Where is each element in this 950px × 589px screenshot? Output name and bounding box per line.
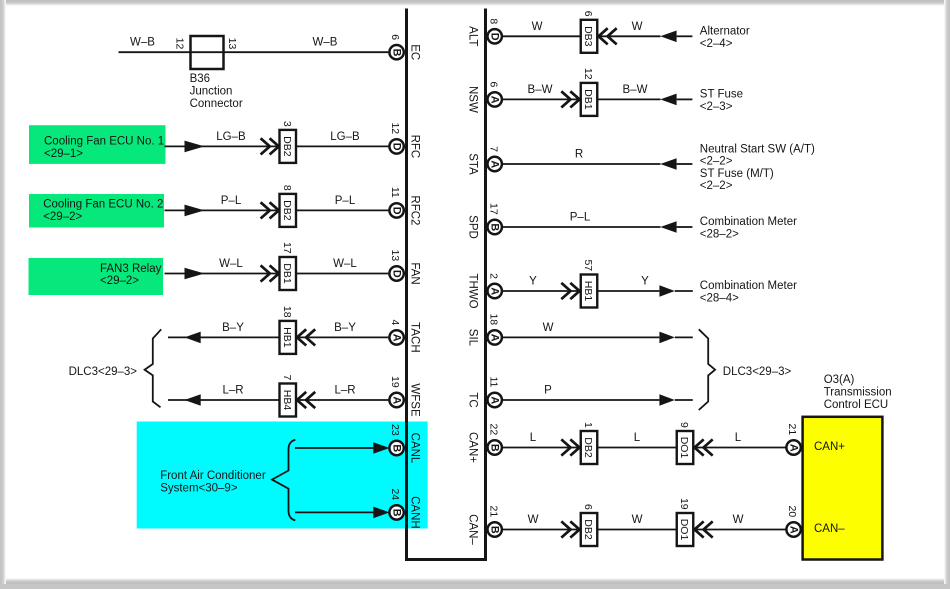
wire P&#8211;L to RFC2: [165, 209, 389, 211]
wire to CANH: [295, 511, 374, 513]
svg-text:12: 12: [174, 38, 186, 50]
svg-text:12: 12: [389, 122, 401, 134]
svg-text:ALT: ALT: [466, 26, 478, 46]
svg-text:L: L: [634, 432, 641, 444]
junction connector B36: [174, 36, 239, 69]
svg-text:W: W: [733, 514, 744, 526]
svg-text:A: A: [391, 396, 403, 404]
svg-text:4: 4: [389, 319, 401, 325]
connector HB1 pin 57 (THWO): [581, 259, 598, 307]
svg-text:18: 18: [487, 313, 499, 325]
connector DB2 pin 8 (RFC2): [280, 185, 297, 227]
svg-text:20: 20: [786, 506, 798, 518]
svg-text:DB2: DB2: [582, 437, 594, 458]
svg-text:LG–B: LG–B: [330, 131, 360, 143]
svg-text:23: 23: [389, 424, 401, 436]
svg-text:Cooling Fan ECU No. 2: Cooling Fan ECU No. 2: [43, 198, 163, 210]
svg-text:Combination Meter: Combination Meter: [700, 280, 797, 292]
splice chevrons DB2 RFC: [261, 138, 279, 154]
splice chevrons DB2 CAN-: [561, 521, 579, 537]
svg-text:W–B: W–B: [130, 37, 155, 49]
connector DB2 pin 6 (CAN-): [581, 504, 598, 546]
svg-text:7: 7: [281, 374, 293, 380]
Cooling Fan ECU No.1 callout box: [29, 125, 166, 164]
svg-text:CAN–: CAN–: [466, 514, 478, 545]
svg-text:21: 21: [487, 506, 499, 518]
svg-text:L–R: L–R: [222, 385, 243, 397]
svg-text:A: A: [391, 334, 403, 342]
svg-text:P–L: P–L: [221, 195, 242, 207]
arrow to Combination Meter 28-4: [659, 285, 674, 297]
wire stub into DLC3 bottom: [675, 399, 693, 401]
FAN3 Relay callout box: [29, 258, 164, 295]
arrow into CANL: [373, 442, 389, 454]
destination ST Fuse: [700, 89, 743, 113]
svg-text:ST Fuse (M/T): ST Fuse (M/T): [700, 168, 774, 180]
pin 17 B (SPD): [487, 203, 502, 234]
svg-text:Neutral Start SW (A/T): Neutral Start SW (A/T): [700, 143, 815, 155]
FAN3 Relay label: [100, 263, 162, 287]
wire B-W from NSW: [503, 98, 661, 100]
Front Air Conditioner System callout box: [137, 422, 428, 529]
pin 11 D (RFC2): [389, 187, 404, 218]
wire W&#8211;L to FAN: [165, 273, 389, 275]
pin 6 A (NSW): [487, 81, 502, 106]
svg-text:DB1: DB1: [582, 89, 594, 110]
svg-text:DO1: DO1: [678, 437, 690, 459]
svg-text:B–Y: B–Y: [222, 322, 244, 334]
splice chevrons DO1 CAN+: [695, 439, 713, 455]
svg-text:TC: TC: [466, 392, 478, 407]
svg-text:R: R: [575, 149, 583, 161]
splice chevrons DB1 FAN: [261, 265, 279, 281]
svg-text:18: 18: [281, 306, 293, 318]
svg-text:SIL: SIL: [466, 329, 478, 347]
pin 4 A (TACH): [389, 319, 404, 344]
svg-text:DO1: DO1: [678, 519, 690, 541]
svg-text:22: 22: [487, 424, 499, 436]
wire W from ALT: [503, 35, 661, 37]
connector DB2 pin 3 (RFC): [280, 121, 297, 163]
svg-text:W–B: W–B: [313, 37, 338, 49]
pin 12 D (RFC): [389, 122, 404, 153]
pin 6 B (EC): [389, 34, 404, 59]
wire L&#8211;R from WFSE: [168, 399, 388, 401]
svg-text:8: 8: [487, 18, 499, 24]
B36 Junction Connector label: [190, 73, 243, 110]
svg-text:<29–1>: <29–1>: [44, 148, 83, 160]
destination Combination Meter 28-4: [700, 280, 797, 304]
wire stub to Combination Meter 28-4: [675, 290, 693, 292]
destination Combination Meter 28-2: [700, 216, 797, 240]
svg-text:Cooling Fan ECU No. 1: Cooling Fan ECU No. 1: [44, 135, 164, 147]
svg-text:7: 7: [487, 146, 499, 152]
svg-text:P–L: P–L: [570, 212, 591, 224]
svg-text:WFSE: WFSE: [408, 383, 420, 417]
svg-text:System<30–9>: System<30–9>: [160, 482, 238, 494]
svg-text:FAN3 Relay: FAN3 Relay: [100, 263, 162, 275]
svg-text:STA: STA: [466, 153, 478, 175]
svg-text:24: 24: [389, 488, 401, 500]
svg-text:<2–2>: <2–2>: [700, 156, 733, 168]
wire R from STA: [503, 163, 661, 165]
svg-text:DB2: DB2: [281, 200, 293, 221]
svg-text:Junction: Junction: [190, 86, 233, 98]
svg-text:P–L: P–L: [335, 195, 356, 207]
svg-text:11: 11: [487, 376, 499, 387]
svg-text:1: 1: [582, 422, 594, 428]
wire B&#8211;Y from TACH: [168, 336, 388, 338]
svg-text:Connector: Connector: [190, 98, 243, 110]
svg-text:D: D: [391, 207, 403, 215]
svg-text:FAN: FAN: [408, 262, 420, 284]
svg-text:13: 13: [389, 250, 401, 262]
svg-text:B–Y: B–Y: [334, 322, 356, 334]
svg-text:Y: Y: [641, 276, 649, 288]
wire stub to ST Fuse: [677, 98, 693, 100]
svg-text:L: L: [530, 432, 537, 444]
svg-text:B: B: [489, 223, 501, 231]
svg-text:HB1: HB1: [582, 281, 594, 302]
svg-text:9: 9: [678, 422, 690, 428]
O3(A) Transmission Control ECU box: [803, 417, 883, 560]
wire L mid CAN+: [598, 447, 677, 449]
pin 2 A (THWO): [487, 273, 502, 298]
svg-text:A: A: [489, 96, 501, 104]
destination Alternator: [700, 26, 750, 50]
svg-text:A: A: [489, 287, 501, 295]
svg-text:B: B: [391, 444, 403, 452]
wire W from SIL: [503, 336, 660, 338]
wire W mid CAN-: [598, 529, 677, 531]
svg-text:Transmission: Transmission: [824, 387, 892, 399]
destination Neutral Start SW / ST Fuse: [700, 143, 815, 192]
Cooling Fan ECU No.1 label: [44, 135, 164, 159]
svg-text:CANL: CANL: [408, 433, 420, 464]
page frame edges: [0, 0, 950, 6]
svg-text:12: 12: [582, 68, 594, 80]
connector HB1 pin 18 (TACH): [280, 306, 297, 354]
svg-text:B: B: [391, 509, 403, 517]
svg-text:19: 19: [389, 376, 401, 388]
arrow to ST Fuse: [660, 94, 676, 106]
wire stub into DLC3 top: [675, 336, 693, 338]
wire L from CAN+: [503, 447, 581, 449]
engine ECU left bus: [405, 9, 408, 562]
svg-text:21: 21: [786, 424, 798, 436]
pin 21 A (O3A CAN+): [786, 424, 801, 455]
svg-text:57: 57: [582, 259, 594, 271]
engine ECU right bus: [484, 9, 487, 562]
arrow into DLC3 bottom: [659, 394, 674, 406]
svg-text:DLC3<29–3>: DLC3<29–3>: [69, 366, 138, 378]
O3(A) Transmission Control ECU label: [824, 374, 892, 411]
splice chevrons DB3 ALT: [599, 28, 617, 44]
brace DLC3 right: [699, 329, 715, 410]
wire W from CAN-: [503, 529, 581, 531]
pin 23 B (CANL): [389, 424, 404, 455]
svg-text:2: 2: [487, 273, 499, 279]
svg-text:LG–B: LG–B: [216, 131, 246, 143]
svg-text:HB4: HB4: [281, 390, 293, 411]
pin 22 B (CAN+): [487, 424, 502, 455]
svg-text:6: 6: [487, 81, 499, 87]
arrow out of TACH wire: [185, 332, 201, 344]
svg-text:Alternator: Alternator: [700, 26, 750, 38]
splice chevrons HB1 TACH: [297, 329, 315, 345]
svg-text:DB3: DB3: [582, 26, 594, 47]
arrow into RFC2 wire: [185, 205, 205, 217]
connector DB2 pin 1 (CAN+): [581, 422, 598, 464]
svg-text:THWO: THWO: [466, 273, 478, 308]
svg-text:CAN+: CAN+: [466, 432, 478, 463]
connector DO1 pin 9 (CAN+): [677, 422, 694, 464]
svg-text:6: 6: [582, 11, 594, 17]
wire stub to Alternator: [677, 35, 693, 37]
svg-text:D: D: [391, 270, 403, 278]
svg-text:W: W: [532, 21, 543, 33]
svg-text:L–R: L–R: [334, 385, 355, 397]
svg-text:<2–4>: <2–4>: [700, 38, 733, 50]
arrow into DLC3 top: [659, 332, 674, 344]
svg-text:B: B: [489, 444, 501, 452]
svg-text:<29–2>: <29–2>: [100, 275, 139, 287]
svg-text:W–L: W–L: [333, 258, 357, 270]
connector DB1 pin 12 (NSW): [581, 68, 598, 116]
svg-text:CANH: CANH: [408, 496, 420, 529]
svg-text:DLC3<29–3>: DLC3<29–3>: [723, 366, 792, 378]
svg-text:Combination Meter: Combination Meter: [700, 216, 797, 228]
svg-text:D: D: [489, 33, 501, 41]
arrow into CANH: [373, 507, 389, 519]
svg-text:B: B: [489, 526, 501, 534]
svg-text:P: P: [544, 385, 552, 397]
svg-text:NSW: NSW: [466, 86, 478, 113]
svg-text:A: A: [489, 334, 501, 342]
svg-text:SPD: SPD: [466, 215, 478, 239]
svg-text:<2–2>: <2–2>: [700, 180, 733, 192]
svg-text:<28–4>: <28–4>: [700, 293, 739, 305]
wire P from TC: [503, 399, 660, 401]
svg-text:<29–2>: <29–2>: [43, 211, 82, 223]
pin 20 A (O3A CAN-): [786, 506, 801, 537]
svg-text:EC: EC: [408, 44, 420, 60]
pin 11 A (TC): [487, 376, 502, 407]
svg-text:A: A: [489, 396, 501, 404]
connector DB1 pin 17 (FAN): [280, 242, 297, 290]
svg-text:A: A: [788, 444, 800, 452]
svg-text:B–W: B–W: [528, 84, 553, 96]
svg-text:13: 13: [226, 38, 238, 50]
svg-text:CAN+: CAN+: [814, 441, 845, 453]
svg-text:TACH: TACH: [408, 322, 420, 352]
svg-text:17: 17: [487, 203, 499, 215]
svg-text:6: 6: [389, 34, 401, 40]
arrow to Combination Meter: [660, 221, 676, 233]
wire W to O3A CAN-: [693, 529, 787, 531]
wire stub to Neutral Start SW: [677, 163, 693, 165]
engine ECU bottom edge: [405, 558, 487, 561]
svg-text:HB1: HB1: [281, 327, 293, 348]
pin 24 B (CANH): [389, 488, 404, 519]
pin 21 B (CAN-): [487, 506, 502, 537]
svg-text:A: A: [788, 526, 800, 534]
svg-text:D: D: [391, 143, 403, 151]
svg-text:RFC2: RFC2: [408, 195, 420, 225]
splice chevrons DB2 RFC2: [261, 202, 279, 218]
wire P-L from SPD: [503, 226, 661, 228]
splice chevrons DB2 CAN+: [561, 439, 579, 455]
svg-text:DB1: DB1: [281, 263, 293, 284]
splice chevrons DB1 NSW: [561, 91, 579, 107]
svg-text:DB2: DB2: [281, 136, 293, 157]
svg-text:19: 19: [678, 498, 690, 510]
connector DB3 pin 6 (ALT): [581, 11, 598, 53]
svg-text:A: A: [489, 160, 501, 168]
svg-text:Front Air Conditioner: Front Air Conditioner: [160, 470, 266, 482]
wire LG&#8211;B to RFC: [165, 145, 389, 147]
Cooling Fan ECU No.2 label: [43, 198, 163, 222]
svg-text:17: 17: [281, 242, 293, 254]
svg-text:W: W: [528, 514, 539, 526]
svg-text:RFC: RFC: [408, 135, 420, 159]
wire stub to Combination Meter: [677, 226, 693, 228]
wire W-B to EC: [119, 51, 389, 53]
svg-text:DB2: DB2: [582, 519, 594, 540]
connector DO1 pin 19 (CAN-): [677, 498, 694, 546]
wire to CANL: [295, 447, 374, 449]
arrow to Neutral Start SW: [660, 158, 676, 170]
pin 13 D (FAN): [389, 250, 404, 281]
svg-text:CAN–: CAN–: [814, 523, 845, 535]
svg-text:W–L: W–L: [219, 258, 243, 270]
splice chevrons DO1 CAN-: [695, 521, 713, 537]
svg-text:ST Fuse: ST Fuse: [700, 89, 743, 101]
svg-text:6: 6: [582, 504, 594, 510]
svg-text:Y: Y: [529, 276, 537, 288]
Cooling Fan ECU No.2 callout box: [29, 194, 164, 228]
splice chevrons HB4 WFSE: [297, 392, 315, 408]
svg-text:L: L: [735, 432, 742, 444]
wire Y from THWO: [503, 290, 660, 292]
arrow into RFC wire: [185, 141, 205, 153]
svg-text:O3(A): O3(A): [824, 374, 855, 386]
connector HB4 pin 7 (WFSE): [280, 374, 297, 416]
pin 8 D (ALT): [487, 18, 502, 43]
Front Air Conditioner System label: [160, 470, 266, 495]
arrow into FAN wire: [185, 268, 205, 280]
pin 7 A (STA): [487, 146, 502, 171]
brace Front Air Conditioner: [272, 440, 295, 521]
svg-text:B36: B36: [190, 73, 210, 85]
arrow to Alternator: [660, 31, 676, 43]
arrow out of WFSE wire: [185, 394, 201, 406]
svg-text:3: 3: [281, 121, 293, 127]
pin 19 A (WFSE): [389, 376, 404, 407]
svg-text:W: W: [543, 322, 554, 334]
svg-text:<2–3>: <2–3>: [700, 101, 733, 113]
svg-text:B: B: [391, 49, 403, 57]
svg-text:B–W: B–W: [623, 84, 648, 96]
svg-text:8: 8: [281, 185, 293, 191]
svg-text:11: 11: [389, 187, 401, 198]
wire L to O3A CAN+: [693, 447, 787, 449]
pin 18 A (SIL): [487, 313, 502, 344]
brace DLC3 left: [145, 329, 162, 407]
svg-text:<28–2>: <28–2>: [700, 229, 739, 241]
svg-text:W: W: [632, 514, 643, 526]
svg-text:Control ECU: Control ECU: [824, 399, 889, 411]
svg-text:W: W: [632, 21, 643, 33]
splice chevrons HB1 THWO: [561, 283, 579, 299]
